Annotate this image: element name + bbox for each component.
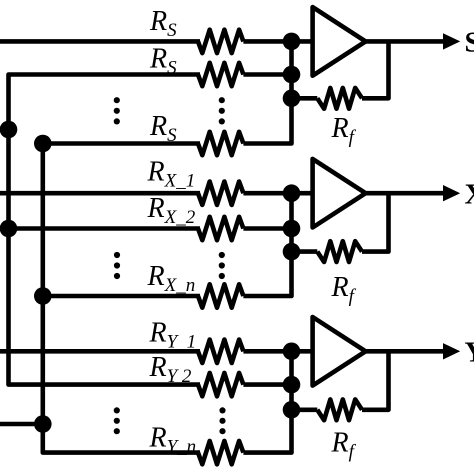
wire R_X_n input row	[43, 294, 200, 299]
ellipsis (more resistors) right, section X	[219, 252, 225, 279]
wire row1 resistor to op-amp input	[243, 349, 312, 354]
wire input 1 (to R_S top row)	[0, 39, 200, 44]
wire junction column	[289, 351, 294, 410]
wire junction column	[289, 193, 294, 251]
op-amp S buffer	[313, 7, 366, 76]
arrowhead output S	[443, 33, 460, 49]
wire R_f to output tap	[362, 41, 389, 98]
node R_X_n tap on bus V2	[34, 287, 52, 305]
wire output S	[366, 39, 447, 44]
wire row2 resistor to junction column	[243, 226, 291, 231]
arrowhead output Y	[443, 343, 460, 359]
svg-text:Rf: Rf	[331, 272, 357, 307]
wire R_Y_1 input row	[0, 349, 200, 354]
node summing junction S row1	[283, 33, 301, 51]
wire row2 resistor to junction column	[243, 382, 291, 387]
node bus V2 top (R_S n tap)	[34, 135, 52, 153]
node summing junction Y feedback	[283, 401, 301, 419]
node input-n junction on bus V2	[34, 415, 52, 433]
wire R_f to output tap	[362, 351, 389, 410]
op-amp Y buffer	[313, 317, 366, 386]
svg-text:RX_n: RX_n	[147, 261, 196, 296]
svg-text:Rf: Rf	[331, 428, 357, 463]
resistor R_S #1 zigzag	[198, 30, 243, 53]
svg-text:RS: RS	[149, 111, 177, 146]
resistor R_X_2 zigzag	[198, 217, 243, 240]
resistor R_X_n zigzag	[198, 284, 243, 307]
svg-text:RY_1: RY_1	[149, 317, 197, 352]
resistor R_f (S feedback)	[317, 88, 362, 109]
wire row1 resistor to op-amp input	[243, 191, 312, 196]
wire row2 resistor to junction column	[243, 72, 291, 77]
svg-text:X: X	[465, 179, 474, 211]
svg-text:RS: RS	[149, 44, 177, 79]
wire input 2 bus entry stub	[0, 127, 9, 132]
resistor R_Y_1 zigzag	[198, 340, 243, 363]
ellipsis (more inputs) left, section Y	[114, 407, 120, 434]
svg-text:RS: RS	[149, 6, 177, 41]
wire R_X_1 input row	[0, 191, 200, 196]
svg-text:RY_n: RY_n	[149, 423, 197, 458]
wire junction column	[289, 41, 294, 98]
node input-2 junction on bus V1	[0, 121, 17, 139]
node summing junction Y row1	[283, 343, 301, 361]
ellipsis (more resistors) right, section S	[219, 97, 225, 124]
resistor R_f (Y feedback)	[317, 399, 362, 420]
wire input n entry	[0, 422, 43, 427]
svg-text:Rf: Rf	[331, 113, 357, 148]
svg-text:RX_1: RX_1	[147, 157, 196, 192]
ellipsis (more inputs) left, section S	[114, 97, 120, 124]
svg-text:S: S	[465, 27, 474, 59]
wire R_f to output tap	[362, 193, 389, 251]
wire row3 resistor to junction column corner	[243, 410, 291, 453]
wire R_X_2 input row	[0, 226, 200, 231]
svg-text:Y: Y	[465, 337, 474, 369]
ellipsis (more resistors) right, section Y	[219, 407, 225, 434]
svg-text:RX_2: RX_2	[147, 193, 196, 228]
resistor R_Y_n zigzag	[198, 441, 243, 464]
resistor R_X_1 zigzag	[198, 182, 243, 205]
node summing junction S feedback	[283, 90, 301, 108]
wire bus V1 (input 2 vertical)	[9, 75, 201, 385]
wire output X	[366, 191, 447, 196]
wire to R_f S	[292, 96, 318, 101]
ellipsis (more inputs) left, section X	[114, 252, 120, 279]
wire row1 resistor to op-amp input	[243, 39, 312, 44]
wire row3 resistor to junction column corner	[243, 98, 291, 143]
node R_X_2 tap on bus V1	[0, 220, 17, 238]
node summing junction X row1	[283, 184, 301, 202]
arrowhead output X	[443, 185, 460, 201]
op-amp X buffer	[313, 159, 366, 228]
wire to R_f Y	[292, 407, 318, 412]
node summing junction Y row2	[283, 376, 301, 394]
node summing junction X feedback	[283, 243, 301, 261]
resistor R_S #3 zigzag	[198, 132, 243, 155]
node summing junction X row2	[283, 220, 301, 238]
svg-text:RY 2: RY 2	[149, 352, 192, 387]
wire output Y	[366, 349, 447, 354]
resistor R_Y_2 zigzag	[198, 373, 243, 396]
wire to R_f X	[292, 249, 318, 254]
resistor R_S #2 zigzag	[198, 63, 243, 86]
resistor R_f (X feedback)	[317, 241, 362, 262]
wire bus V2 (input n vertical)	[43, 144, 200, 453]
node summing junction S row2	[283, 66, 301, 84]
wire row3 resistor to junction column corner	[243, 252, 291, 296]
